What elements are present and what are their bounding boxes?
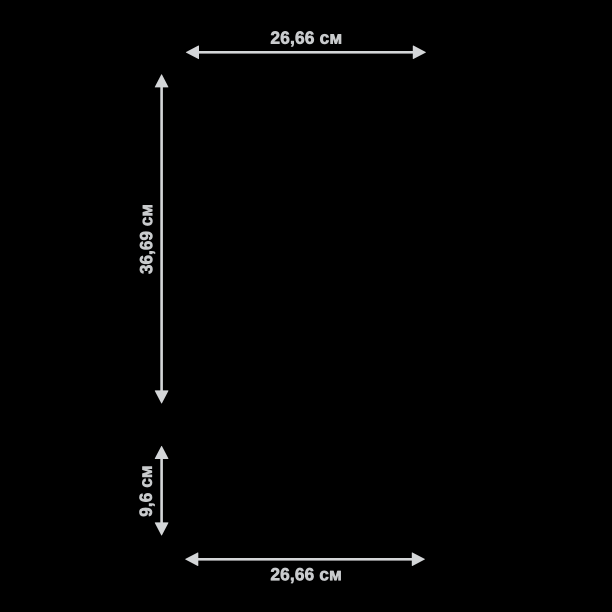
top width dimension arrow (26,66 cm) [186, 46, 425, 59]
left height dimension arrow (36,69 cm) [155, 75, 168, 403]
lower-left depth dimension arrow (9,6 cm) [155, 446, 168, 535]
top width label "26,66 см" [271, 31, 341, 46]
left height label "36,69 см" (rotated 90) [140, 205, 155, 273]
bottom width label "26,66 см" [271, 568, 341, 583]
lower-left depth label "9,6 см" (rotated 90) [140, 467, 155, 517]
bottom width dimension arrow (26,66 cm) [186, 553, 425, 566]
